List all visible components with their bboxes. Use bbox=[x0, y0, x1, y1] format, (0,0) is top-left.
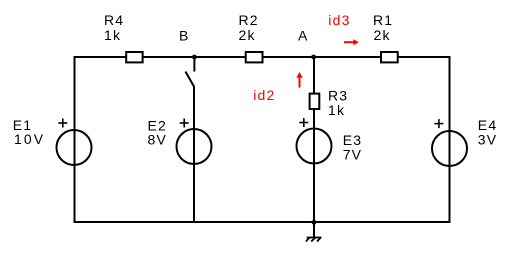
svg-text:8V: 8V bbox=[148, 132, 168, 148]
svg-text:B: B bbox=[179, 28, 190, 44]
plus sign of E4 bbox=[434, 119, 443, 128]
svg-text:2k: 2k bbox=[374, 27, 391, 43]
svg-text:3V: 3V bbox=[478, 131, 498, 147]
wire right rail bbox=[449, 56, 451, 223]
wire left rail bbox=[74, 56, 76, 223]
voltage source E1 bbox=[57, 130, 92, 165]
wire top rail bbox=[75, 56, 450, 58]
svg-text:1k: 1k bbox=[328, 102, 345, 118]
svg-text:R4: R4 bbox=[104, 12, 124, 28]
svg-text:id2: id2 bbox=[253, 87, 275, 103]
node A junction dot bbox=[311, 55, 316, 60]
svg-text:A: A bbox=[298, 28, 309, 44]
ground symbol bbox=[306, 237, 322, 241]
voltage source E2 bbox=[177, 129, 212, 164]
switch S1 open blade bbox=[185, 72, 194, 87]
current arrow id3 bbox=[344, 39, 359, 45]
svg-text:7V: 7V bbox=[343, 147, 363, 163]
resistor R2 bbox=[246, 52, 263, 62]
svg-text:1k: 1k bbox=[104, 27, 121, 43]
wire stub from node B to switch contact bbox=[193, 57, 195, 72]
resistor R4 bbox=[126, 52, 142, 62]
current arrow id2 bbox=[296, 72, 302, 88]
resistor R3 bbox=[310, 94, 320, 109]
resistor R1 bbox=[381, 52, 398, 62]
plus sign of E1 bbox=[58, 119, 67, 128]
wire switch to E2 to bottom rail bbox=[193, 86, 195, 222]
node B junction dot bbox=[192, 55, 197, 60]
voltage source E3 bbox=[297, 129, 332, 164]
svg-text:10V: 10V bbox=[14, 131, 45, 147]
svg-text:R2: R2 bbox=[239, 12, 259, 28]
svg-text:R1: R1 bbox=[373, 12, 393, 28]
wire bottom rail bbox=[74, 221, 451, 223]
svg-text:id3: id3 bbox=[328, 12, 350, 28]
svg-text:2k: 2k bbox=[239, 27, 256, 43]
bottom ground node junction dot bbox=[312, 220, 317, 225]
plus sign of E3 bbox=[299, 118, 308, 127]
voltage source E4 bbox=[432, 131, 467, 166]
plus sign of E2 bbox=[180, 119, 189, 128]
wire node A branch through R3 and E3 bbox=[313, 57, 315, 222]
ground stub wire bbox=[313, 222, 315, 238]
